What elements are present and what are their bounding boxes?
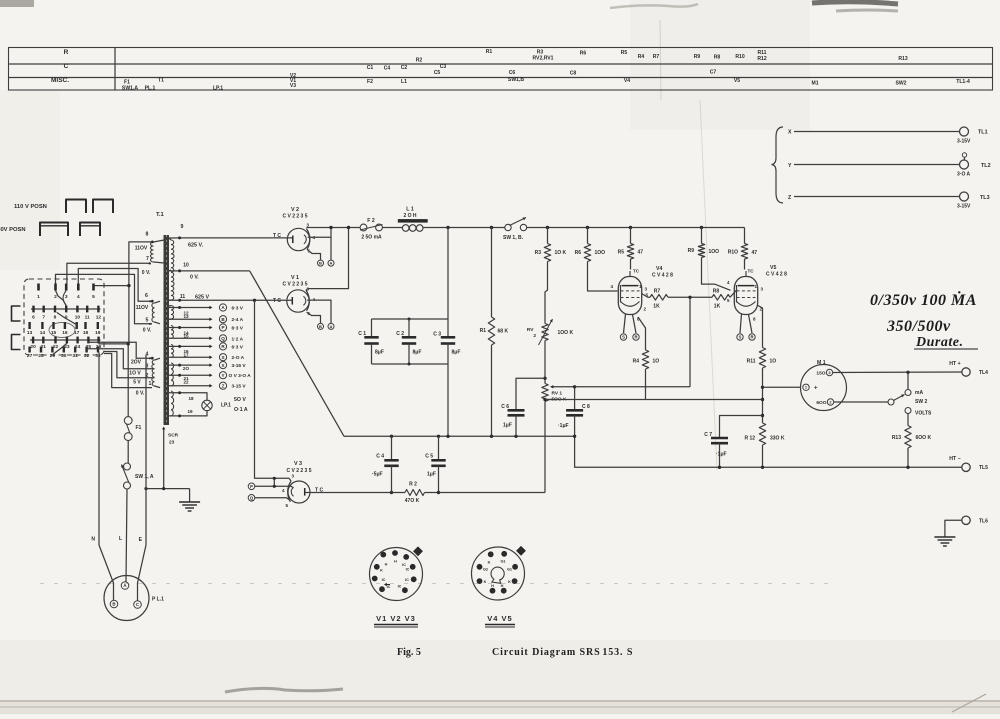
svg-text:V3: V3 [290,83,296,89]
wire V4 anode to R7 [642,294,651,298]
svg-text:1O: 1O [770,359,777,365]
svg-text:3-15 V: 3-15 V [232,363,247,369]
svg-text:R1: R1 [480,328,487,334]
wire tap 7 0V to terminal 3 [67,263,151,283]
svg-text:1O V: 1O V [129,371,141,377]
cathode reference bus [545,399,557,401]
wire 0V bus down to HT- rail [575,436,962,467]
resistor R1 68K bleeder [491,228,493,318]
svg-text:R5: R5 [621,50,628,56]
wire earth bus to chassis ground [146,488,190,490]
svg-text:1·2 A: 1·2 A [232,336,244,342]
paper fold crease horizontal dashed [40,583,830,585]
svg-text:T.1: T.1 [156,212,165,218]
svg-text:1OO: 1OO [595,250,606,256]
wire tap 3 riser [87,349,152,369]
resistor R8 1K [712,295,730,301]
svg-text:V4: V4 [656,266,662,272]
svg-text:3·O A: 3·O A [957,172,971,178]
svg-text:8μF: 8μF [375,350,384,356]
wire R11 to meter + [763,386,801,388]
switch SW1,A [124,463,131,470]
wire SW2 volts to R13 [907,414,909,426]
svg-text:R: R [634,335,637,340]
svg-text:C7: C7 [710,70,717,76]
svg-text:C8: C8 [570,71,577,77]
terminal TL3 [960,192,969,201]
svg-text:11: 11 [85,315,90,321]
wire N to plug pin B [99,537,114,601]
svg-text:R9: R9 [688,248,695,254]
svg-text:18: 18 [83,330,89,336]
svg-text:47: 47 [638,250,644,256]
svg-text:19: 19 [95,330,101,336]
transformer HT secondary winding 9-10-11 [171,240,174,300]
svg-text:R4: R4 [633,359,640,365]
svg-text:C V 2 2 3 5: C V 2 2 3 5 [282,214,307,220]
svg-text:22: 22 [53,344,59,350]
heater tag S of V5 [740,314,742,333]
heater tag A of V2 [328,260,334,266]
resistor R6 100 [587,228,589,244]
svg-text:R13: R13 [892,435,901,441]
bottom paper edge band [0,700,1000,702]
terminal TL1 [960,127,969,136]
svg-text:RV2,RV1: RV2,RV1 [532,56,553,62]
valve base diagram V1 V2 V3 [370,548,423,601]
svg-text:19: 19 [187,409,193,414]
wire R8 to V5 grid [730,290,737,298]
heater tag R of V5 [749,315,753,334]
svg-text:M1: M1 [811,81,818,87]
mains plug PL1 [104,576,149,621]
table row MISC entries [122,73,970,92]
svg-text:16: 16 [62,330,68,336]
svg-text:V5: V5 [770,265,776,271]
svg-text:RV 1: RV 1 [552,391,563,397]
svg-text:8μF: 8μF [452,350,461,356]
svg-text:8μF: 8μF [413,350,422,356]
svg-text:Y: Y [788,163,792,169]
terminal row 27-33 [27,347,101,359]
svg-text:O V 3-O A: O V 3-O A [229,373,252,379]
svg-text:V 3: V 3 [294,461,302,467]
spigot keyhole of base V4V5 [490,566,505,583]
svg-text:T C: T C [273,298,281,304]
svg-text:P: P [250,484,253,489]
heater tap B 2-4A [169,318,210,320]
svg-text:Circuit Diagram SRS 153. S: Circuit Diagram SRS 153. S [492,647,633,658]
svg-text:11: 11 [180,294,186,300]
terminal strip dashed enclosure [24,279,104,355]
resistor R4 10 [638,317,646,350]
svg-text:C V 4 2 8: C V 4 2 8 [766,272,787,278]
svg-text:6OO K: 6OO K [916,435,932,441]
svg-text:10: 10 [183,263,189,269]
wire tap 2 riser [104,352,152,378]
svg-text:H: H [385,563,388,567]
svg-text:·5μF: ·5μF [372,472,383,478]
svg-text:S: S [622,335,625,340]
svg-text:2-4 A: 2-4 A [232,317,244,323]
svg-text:Fig. 5: Fig. 5 [397,647,421,658]
wire chassis terminal to ground [945,520,962,537]
svg-text:7: 7 [42,315,45,321]
svg-text:PL.1: PL.1 [145,86,156,92]
heater tap Q 1-2A [169,337,210,339]
wire live L from 110V link [127,344,129,417]
svg-text:R10: R10 [735,54,745,60]
svg-text:14: 14 [40,330,46,336]
transformer primary winding 6-5 (110V) [152,303,155,322]
svg-text:2: 2 [533,333,536,339]
svg-text:10: 10 [75,315,81,321]
wire meter 600 range to SW2 [834,401,888,403]
wire earth E [145,355,147,545]
svg-text:TL3: TL3 [980,195,990,201]
svg-text:33O K: 33O K [770,436,785,442]
svg-text:F 2: F 2 [367,218,375,224]
resistor R13 600K [905,426,911,449]
svg-text:mA: mA [915,390,923,396]
svg-text:11OV: 11OV [136,305,149,311]
wire C3 feed from rail [447,228,449,320]
heater tap R 6.3V [169,345,210,347]
svg-text:R1: R1 [486,49,493,55]
wire P to V3 pin4 [255,486,293,488]
heater tap P 6.3V [169,327,210,329]
svg-text:13: 13 [183,314,189,319]
wire Q to V3 pin5 [255,498,290,501]
110V link symbols [66,200,86,214]
wire 0V return diagonal to smoothing bus [250,271,344,436]
svg-text:1: 1 [37,294,40,300]
spigot key of base V1V2V3 [413,546,423,556]
svg-text:A: A [330,261,333,266]
svg-text:IC: IC [406,568,410,572]
scan smudge top-right [812,2,898,4]
svg-text:SW1,B: SW1,B [508,77,524,83]
wire V3 cathode to 625V tap 11 [255,300,292,481]
svg-text:V4 V5: V4 V5 [487,614,512,623]
heater tap Y 0V 3-0A [169,374,210,376]
resistor R10 47 [744,228,746,244]
svg-text:27: 27 [27,353,33,359]
link wire terminal 23 to 30 [52,343,67,355]
resistor R7 1K [650,295,668,301]
transformer primary winding 4-3-2-1 (20/10/5/0V) [152,360,155,386]
transformer screen SCR connection [162,427,165,430]
svg-text:1μF: 1μF [503,423,512,429]
svg-text:R8: R8 [713,289,720,295]
transformer heater winding 20-21-22 [171,363,174,386]
svg-text:1O K: 1O K [555,250,567,256]
wire V2 pin5 to heater B [307,249,320,260]
svg-text:32: 32 [84,353,90,359]
svg-text:·1μF: ·1μF [716,452,727,458]
svg-text:T C: T C [273,233,281,239]
svg-text:47: 47 [752,250,758,256]
svg-text:TL6: TL6 [979,519,988,525]
switch SW2 mA/VOLTS [907,372,909,389]
svg-text:C V 2 2 3 5: C V 2 2 3 5 [282,282,307,288]
transformer heater winding 16-17 [171,345,174,358]
resistor R9 100 [701,228,703,244]
terminal chassis TL6 [962,516,970,524]
svg-text:6: 6 [32,315,35,321]
resistor R12 330K [759,423,765,445]
svg-text:TL5: TL5 [979,465,988,471]
svg-text:12: 12 [96,315,102,321]
svg-text:L1: L1 [401,79,407,85]
svg-text:C1: C1 [367,65,374,71]
svg-text:HT +: HT + [949,361,960,367]
svg-text:SW1,A: SW1,A [122,86,138,92]
heater tap S 2-0A [169,356,210,358]
transformer heater winding 12-13 [171,306,174,320]
wire R3 to RV2 [545,262,548,324]
svg-text:6: 6 [145,293,148,299]
svg-text:3-15 V: 3-15 V [232,384,247,390]
heater tag B of V2 [318,260,324,266]
svg-text:6·3 V: 6·3 V [232,344,244,350]
svg-text:15O: 15O [816,371,825,377]
reservoir capacitor bank top bus [372,318,449,320]
terminal row 20-26 [30,337,102,351]
svg-text:C V 2 2 3 5: C V 2 2 3 5 [286,468,311,474]
svg-text:31: 31 [73,353,79,359]
wire RV2 to RV1 [544,341,546,384]
wire capacitor bank to 0V bus [447,364,449,436]
wire terminal 4 to tap 6 [78,269,152,302]
svg-text:2-O A: 2-O A [232,355,245,361]
svg-text:L 1: L 1 [406,207,414,213]
coupling node to RV1 wiper [689,297,691,387]
svg-text:R 12: R 12 [744,436,755,442]
svg-text:47O K: 47O K [405,498,420,504]
link wire terminal 2 to 9 [56,291,67,307]
resistor R11 10 [759,348,765,369]
svg-text:TL1: TL1 [978,130,988,136]
preset RV1 500K [542,384,548,402]
heater tag A of V1 [328,323,334,329]
svg-text:RV: RV [527,327,534,333]
svg-text:IC: IC [402,563,406,567]
wire neutral N from terminal 33 [98,353,100,537]
svg-text:R 2: R 2 [409,482,417,488]
wire Z to TL3 [794,196,960,198]
svg-text:C: C [64,63,69,70]
paper fold crease vertical [660,20,661,100]
wire tap 4 to terminal 25 [88,342,152,358]
svg-text:5 V: 5 V [133,380,141,386]
svg-text:110 V POSN: 110 V POSN [14,204,47,210]
svg-text:R12: R12 [757,56,767,62]
svg-text:K: K [488,561,491,565]
switch SW1,B [505,224,511,230]
svg-text:TL4: TL4 [979,370,988,376]
svg-text:23: 23 [169,440,175,446]
svg-text:33: 33 [95,353,101,359]
svg-text:R1O: R1O [728,250,738,256]
230V link symbols [40,223,68,237]
svg-text:2O: 2O [183,366,190,371]
printed circle mark around terminals 16-18 [49,323,75,338]
transformer primary winding 8-7 (110V) [151,242,154,262]
svg-text:G1: G1 [507,568,512,572]
svg-text:Q: Q [221,336,225,341]
svg-text:V1 V2 V3: V1 V2 V3 [376,614,416,623]
bottom-right diagonal mark [952,694,986,712]
svg-text:T1: T1 [158,78,164,84]
svg-text:0 V.: 0 V. [143,328,152,334]
svg-text:TL1-4: TL1-4 [956,79,970,85]
svg-text:C 5: C 5 [425,454,433,460]
svg-text:3-15V: 3-15V [957,204,971,210]
svg-text:LP.1: LP.1 [221,403,231,409]
potentiometer RV2 100K [542,324,548,341]
spigot key of base V4V5 [516,546,526,556]
svg-text:V5: V5 [734,78,740,84]
svg-text:K: K [484,580,487,584]
RV1 wiper arrow wire [553,386,575,388]
svg-text:3: 3 [65,294,68,300]
svg-text:G2: G2 [483,568,488,572]
svg-text:R11: R11 [747,359,756,365]
wire V5 cathode to R11 [757,305,763,348]
svg-text:2 O H: 2 O H [403,213,416,219]
svg-text:V 2: V 2 [291,207,299,213]
svg-text:IC: IC [405,578,409,582]
svg-text:1K: 1K [714,304,721,310]
terminal row 6-12 [31,306,101,321]
table row C entries [367,64,717,77]
heater tap X 3-15V [169,364,210,366]
svg-text:2OV: 2OV [131,360,142,366]
wire SW1A to plug pin A [126,489,127,582]
svg-text:B: B [319,261,322,266]
chassis ground symbol [179,501,200,503]
svg-text:9: 9 [181,224,184,230]
svg-text:C6: C6 [509,70,516,76]
svg-text:+: + [814,386,818,392]
wire terminal 5 to 110V line [94,285,129,287]
svg-text:TC: TC [633,269,640,274]
svg-text:0 V.: 0 V. [136,391,145,397]
scan smudge top-center [610,4,698,8]
link wire terminal 8 to 17 [57,312,77,325]
svg-text:18: 18 [188,396,194,401]
svg-text:MISC.: MISC. [51,77,69,84]
svg-text:X: X [788,130,792,136]
svg-text:1μF: 1μF [427,472,436,478]
svg-text:TL2: TL2 [981,163,991,169]
svg-text:1OO K: 1OO K [558,330,574,336]
svg-text:R7: R7 [654,289,661,295]
svg-text:2 5O mA: 2 5O mA [361,235,382,241]
svg-text:1O: 1O [653,359,660,365]
terminal row 13-19 [27,322,101,336]
svg-text:1: 1 [149,381,152,387]
wire X to TL1 [794,131,960,133]
svg-text:C4: C4 [384,66,391,72]
svg-text:SW 2: SW 2 [915,399,927,405]
svg-text:IC: IC [398,585,402,589]
svg-text:3-15V: 3-15V [957,139,971,145]
wire E to plug pin C [138,545,147,601]
brace for X Y Z group [772,127,784,203]
bias wire to RV1 foot [439,492,546,494]
wire V1 pin4 to heater A [307,300,331,323]
svg-text:R7: R7 [653,54,660,60]
svg-text:7: 7 [146,256,149,262]
svg-text:C 4: C 4 [376,454,384,460]
svg-text:350/500v: 350/500v [886,318,951,335]
svg-text:R5: R5 [618,250,625,256]
svg-text:F1: F1 [136,425,142,431]
bias output wire from V3 top cap [305,492,392,494]
connector bracket lower [12,335,21,350]
svg-text:5O V: 5O V [234,397,246,403]
svg-text:6·3 V: 6·3 V [232,326,244,332]
wire R9 to V5 grid node [702,258,731,291]
connector bracket upper [12,306,21,321]
link wire terminal 3 curve [63,291,66,306]
svg-text:20: 20 [30,344,36,350]
svg-text:VOLTS: VOLTS [915,411,932,417]
svg-text:IC: IC [387,585,391,589]
svg-text:Y: Y [221,373,224,378]
wire tap 1 riser [104,354,152,388]
svg-text:2: 2 [54,294,57,300]
wire R6 to V4 screen [588,262,618,292]
svg-text:SW 1, A: SW 1, A [135,474,154,480]
svg-text:1K: 1K [653,304,660,310]
svg-text:F2: F2 [367,79,373,85]
svg-text:R6: R6 [575,250,582,256]
svg-text:230V POSN: 230V POSN [0,227,26,233]
svg-text:R13: R13 [898,56,908,62]
heater tag R of V4 [633,315,637,334]
svg-text:625 V.: 625 V. [188,243,204,249]
paper tone shading [0,90,60,270]
svg-text:SW 1, B.: SW 1, B. [503,235,524,241]
svg-text:SW2: SW2 [895,81,906,87]
wire RV1 foot to bias line [544,402,546,493]
svg-text:5: 5 [146,318,149,324]
svg-text:V 1: V 1 [291,275,299,281]
heater tag P of V3 [248,483,255,490]
svg-text:625 V: 625 V [195,295,209,301]
svg-text:4: 4 [77,294,80,300]
svg-text:LP.1: LP.1 [213,86,223,92]
svg-text:6OO: 6OO [816,400,826,406]
bottom-left smudge [225,688,343,692]
svg-text:R2: R2 [416,58,423,64]
svg-text:R: R [750,335,753,340]
wire HT rail SW1B to R10 [527,227,745,229]
wire meter 150 range to HT+ [833,371,962,374]
svg-text:L: L [119,536,122,542]
svg-text:N: N [91,537,95,543]
svg-text:C5: C5 [434,70,441,76]
wire tap 8 110V to terminal 26 [99,242,152,344]
svg-text:R4: R4 [638,54,645,60]
chassis ground at TL6 [934,536,955,538]
svg-text:P L.1: P L.1 [152,597,164,603]
wire lamp winding to LP1 [169,393,207,400]
svg-text:B: B [319,324,322,329]
